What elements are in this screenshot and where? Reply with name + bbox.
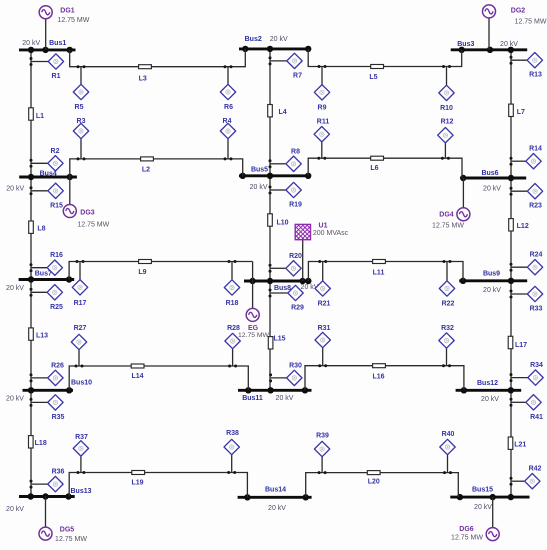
bus Bus10 (20 kV busbar) [6, 380, 92, 403]
line L20 (wire run with impedance box) [306, 471, 459, 498]
line L17 (impedance box on trunk) [508, 336, 527, 349]
line L3 (wire run with impedance box) [70, 49, 246, 82]
generator DG1 (12.75 MW) [39, 6, 90, 50]
svg-text:L1: L1 [36, 113, 44, 120]
svg-text:DG6: DG6 [459, 526, 474, 533]
load R38 (diamond on line tap) [224, 430, 239, 474]
svg-text:R19: R19 [289, 202, 302, 209]
load R14 (diamond on trunk tap) [510, 146, 543, 169]
load R3 (diamond on line tap) [73, 118, 88, 160]
svg-text:20 kV: 20 kV [6, 396, 24, 403]
svg-text:Bus1: Bus1 [49, 40, 66, 47]
svg-text:12.75 MW: 12.75 MW [57, 17, 89, 24]
svg-text:L15: L15 [273, 336, 285, 343]
svg-text:Bus4: Bus4 [40, 171, 57, 178]
bus Bus14 (20 kV busbar) [238, 487, 312, 513]
svg-text:R42: R42 [529, 466, 542, 473]
line L2 (wire run with impedance box) [70, 157, 243, 177]
svg-text:DG3: DG3 [80, 210, 95, 217]
svg-text:R36: R36 [52, 469, 65, 476]
generator DG6 (12.75 MW) [451, 497, 499, 541]
load R33 (diamond on trunk tap) [510, 286, 543, 312]
svg-text:R11: R11 [317, 119, 330, 126]
bus Bus5 (20 kV busbar) [239, 167, 311, 192]
svg-text:20 kV: 20 kV [270, 36, 288, 43]
line L6 (wire run with impedance box) [308, 156, 462, 178]
line L9 (wire run with impedance box) [69, 260, 253, 280]
svg-text:L2: L2 [142, 167, 150, 174]
bus Bus12 (20 kV busbar) [456, 380, 522, 403]
svg-text:DG4: DG4 [439, 211, 454, 218]
svg-text:Bus7: Bus7 [35, 270, 52, 277]
load R22 (diamond on line tap) [439, 260, 454, 308]
load R26 (diamond on trunk tap) [30, 362, 65, 385]
load R9 (diamond on line tap) [314, 65, 329, 112]
load R36 (diamond on trunk tap) [30, 469, 65, 492]
svg-text:20 kV: 20 kV [474, 504, 492, 511]
load R7 (diamond on trunk tap) [269, 53, 303, 79]
svg-text:R2: R2 [51, 148, 60, 155]
generator DG2 (12.75 MW) [483, 5, 547, 50]
svg-text:L8: L8 [37, 226, 45, 233]
line L4 (impedance box on trunk) [268, 105, 287, 117]
svg-text:R23: R23 [529, 203, 542, 210]
line L5 (wire run with impedance box) [308, 49, 462, 81]
svg-text:Bus14: Bus14 [265, 487, 286, 494]
load R25 (diamond on trunk tap) [30, 285, 64, 311]
svg-text:L17: L17 [515, 342, 527, 349]
svg-text:L12: L12 [517, 223, 529, 230]
svg-text:L11: L11 [373, 270, 385, 277]
svg-text:20 kV: 20 kV [6, 186, 24, 193]
bus Bus9 (20 kV busbar) [459, 270, 527, 294]
svg-text:R12: R12 [441, 119, 454, 126]
svg-text:20 kV: 20 kV [22, 40, 40, 47]
bus Bus6 (20 kV busbar) [460, 170, 526, 193]
svg-text:Bus3: Bus3 [457, 41, 474, 48]
svg-text:12.75 MW: 12.75 MW [77, 221, 109, 228]
line L14 (wire run with impedance box) [69, 364, 248, 390]
svg-text:Bus15: Bus15 [472, 487, 493, 494]
svg-text:20 kV: 20 kV [276, 395, 294, 402]
line L8 (impedance box on trunk) [29, 221, 46, 233]
svg-text:12.75 MW: 12.75 MW [451, 535, 483, 542]
load R23 (diamond on trunk tap) [510, 184, 543, 210]
load R30 (diamond on trunk tap) [269, 362, 302, 385]
svg-text:R21: R21 [318, 301, 331, 308]
svg-text:R32: R32 [441, 325, 454, 332]
svg-text:L18: L18 [35, 440, 47, 447]
svg-text:20 kV: 20 kV [250, 184, 268, 191]
svg-text:L20: L20 [368, 478, 380, 485]
svg-text:L19: L19 [131, 480, 143, 487]
svg-text:R5: R5 [75, 104, 84, 111]
load R2 (diamond on trunk tap) [30, 148, 64, 171]
svg-text:R13: R13 [529, 72, 542, 79]
line L19 (wire run with impedance box) [69, 471, 247, 498]
svg-text:R6: R6 [224, 104, 233, 111]
load R16 (diamond on trunk tap) [30, 252, 64, 275]
svg-text:Bus11: Bus11 [242, 395, 263, 402]
svg-text:DG5: DG5 [60, 527, 75, 534]
line L1 (impedance box on trunk) [29, 108, 44, 120]
svg-text:DG2: DG2 [511, 8, 526, 15]
svg-text:Bus2: Bus2 [245, 36, 262, 43]
bus Bus13 (20 kV busbar) [6, 488, 92, 513]
load R40 (diamond on line tap) [440, 431, 455, 474]
svg-text:L6: L6 [370, 165, 378, 172]
svg-text:20 kV: 20 kV [483, 186, 501, 193]
load R18 (diamond on line tap) [224, 260, 239, 307]
svg-text:20 kV: 20 kV [268, 505, 286, 512]
svg-text:20 kV: 20 kV [483, 287, 501, 294]
line L18 (impedance box on trunk) [29, 436, 47, 448]
svg-text:R1: R1 [52, 73, 61, 80]
load R15 (diamond on trunk tap) [30, 183, 64, 209]
load R12 (diamond on line tap) [438, 119, 454, 160]
load R5 (diamond on line tap) [73, 65, 88, 111]
svg-text:L13: L13 [36, 333, 48, 340]
svg-text:R26: R26 [51, 362, 64, 369]
svg-text:R35: R35 [52, 414, 65, 421]
load R39 (diamond on line tap) [314, 432, 329, 474]
load R20 (diamond on trunk tap) [269, 253, 303, 276]
line L16 (wire run with impedance box) [305, 364, 464, 391]
svg-text:R33: R33 [530, 306, 543, 313]
svg-text:R10: R10 [440, 105, 453, 112]
svg-text:R17: R17 [74, 300, 87, 307]
svg-text:L9: L9 [138, 269, 146, 276]
wire left feeder trunk (Bus1-Bus4-Bus7-Bus10-Bus13) [30, 50, 32, 497]
svg-text:R39: R39 [316, 432, 329, 439]
load R10 (diamond on line tap) [439, 65, 454, 112]
svg-text:L21: L21 [514, 442, 526, 449]
load R24 (diamond on trunk tap) [510, 252, 543, 275]
generator DG5 (12.75 MW) [39, 497, 87, 544]
svg-text:L5: L5 [369, 74, 377, 81]
svg-text:R14: R14 [529, 146, 542, 153]
generator EG (12.75 MW) on Bus8 [238, 262, 270, 339]
wire right feeder trunk (Bus3-Bus6-Bus9-Bus12-Bus15) [510, 50, 512, 497]
load R41 (diamond on trunk tap) [510, 395, 544, 421]
svg-text:U1: U1 [319, 223, 328, 230]
load R8 (diamond on trunk tap) [269, 148, 302, 171]
svg-text:L7: L7 [517, 109, 525, 116]
bus Bus11 (20 kV busbar) [238, 387, 312, 402]
generator DG3 (12.75 MW) [63, 177, 109, 228]
bus Bus7 (20 kV busbar) [6, 270, 74, 292]
bus Bus8 (20 kV busbar) [244, 278, 319, 292]
line L21 (impedance box on trunk) [508, 437, 526, 449]
load R31 (diamond on line tap) [315, 325, 331, 367]
load R28 (diamond on line tap) [225, 325, 240, 367]
svg-text:R31: R31 [318, 325, 331, 332]
line L13 (impedance box on trunk) [29, 328, 48, 340]
load R1 (diamond on trunk tap) [30, 54, 64, 80]
load R27 (diamond on line tap) [71, 325, 86, 368]
svg-text:L4: L4 [279, 109, 287, 116]
svg-text:12.75 MW: 12.75 MW [432, 223, 464, 230]
svg-text:L16: L16 [372, 373, 384, 380]
svg-text:Bus5: Bus5 [251, 167, 268, 174]
svg-text:L10: L10 [276, 220, 288, 227]
load R37 (diamond on line tap) [73, 434, 88, 474]
svg-text:L3: L3 [139, 75, 147, 82]
load R4 (diamond on line tap) [220, 118, 235, 160]
load R6 (diamond on line tap) [220, 65, 235, 111]
line L11 (wire run with impedance box) [308, 260, 463, 282]
load R32 (diamond on line tap) [439, 325, 454, 367]
svg-text:L14: L14 [131, 373, 143, 380]
svg-text:R25: R25 [50, 304, 63, 311]
svg-text:R30: R30 [289, 362, 302, 369]
svg-text:200 MVAsc: 200 MVAsc [313, 230, 349, 237]
load R19 (diamond on trunk tap) [269, 182, 303, 208]
svg-text:R22: R22 [442, 301, 455, 308]
load R17 (diamond on line tap) [72, 260, 87, 307]
svg-text:R15: R15 [50, 202, 63, 209]
svg-text:R3: R3 [77, 118, 86, 125]
svg-text:R37: R37 [75, 434, 88, 441]
svg-text:Bus6: Bus6 [481, 170, 498, 177]
wire center feeder trunk (Bus2-Bus5-Bus8-Bus11) [269, 49, 271, 390]
load R11 (diamond on line tap) [314, 119, 329, 160]
line L7 (impedance box on trunk) [509, 104, 525, 116]
svg-text:R27: R27 [74, 325, 87, 332]
svg-text:R8: R8 [291, 148, 300, 155]
svg-text:12.75 MW: 12.75 MW [238, 332, 270, 339]
svg-text:R29: R29 [291, 305, 304, 312]
svg-text:R7: R7 [293, 72, 302, 79]
line L15 (impedance box on trunk) [268, 336, 285, 350]
svg-text:R38: R38 [226, 430, 239, 437]
load R34 (diamond on trunk tap) [510, 362, 544, 385]
svg-text:R9: R9 [318, 105, 327, 112]
svg-text:20 kV: 20 kV [500, 41, 518, 48]
svg-text:R40: R40 [442, 431, 455, 438]
bus Bus3 (20 kV busbar) [451, 41, 528, 53]
svg-text:R34: R34 [530, 362, 543, 369]
svg-text:R20: R20 [289, 253, 302, 260]
svg-text:Bus12: Bus12 [477, 380, 498, 387]
svg-text:Bus13: Bus13 [70, 488, 91, 495]
svg-text:20 kV: 20 kV [6, 506, 24, 513]
load R21 (diamond on line tap) [315, 260, 331, 308]
svg-text:DG1: DG1 [60, 7, 75, 14]
svg-text:Bus10: Bus10 [71, 380, 92, 387]
load R29 (diamond on trunk tap) [269, 285, 305, 311]
generator DG4 (12.75 MW) [432, 178, 470, 230]
line L12 (impedance box on trunk) [509, 219, 529, 231]
load R13 (diamond on trunk tap) [510, 53, 543, 79]
svg-text:R24: R24 [530, 252, 543, 259]
bus Bus1 (20 kV busbar) [19, 40, 76, 53]
bus Bus4 (20 kV busbar) [6, 171, 77, 193]
svg-text:R41: R41 [530, 414, 543, 421]
svg-text:12.75 MW: 12.75 MW [55, 536, 87, 543]
svg-text:R18: R18 [226, 300, 239, 307]
load R35 (diamond on trunk tap) [30, 395, 65, 421]
line L10 (impedance box on trunk) [268, 214, 289, 227]
external grid U1 (200 MVAsc) [295, 213, 348, 281]
svg-text:R16: R16 [50, 252, 63, 259]
bus Bus15 (20 kV busbar) [450, 487, 529, 512]
svg-text:20 kV: 20 kV [481, 396, 499, 403]
load R42 (diamond on trunk tap) [510, 466, 542, 489]
svg-text:Bus8: Bus8 [274, 285, 291, 292]
svg-text:Bus9: Bus9 [483, 270, 500, 277]
svg-text:20 kV: 20 kV [6, 285, 24, 292]
bus Bus2 (20 kV busbar) [239, 36, 311, 52]
svg-text:12.75 MW: 12.75 MW [515, 18, 547, 25]
svg-text:R4: R4 [223, 118, 232, 125]
